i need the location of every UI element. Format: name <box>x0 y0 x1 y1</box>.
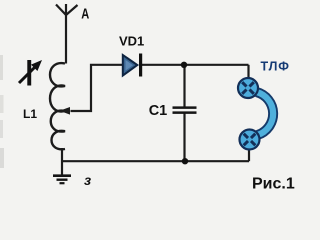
svg-text:А: А <box>81 7 89 23</box>
svg-text:з: з <box>84 172 91 188</box>
svg-text:Рис.1: Рис.1 <box>252 175 295 192</box>
svg-text:C1: C1 <box>149 103 168 119</box>
svg-text:L1: L1 <box>23 107 37 121</box>
svg-text:VD1: VD1 <box>119 34 144 49</box>
svg-text:ТЛФ: ТЛФ <box>261 60 290 74</box>
